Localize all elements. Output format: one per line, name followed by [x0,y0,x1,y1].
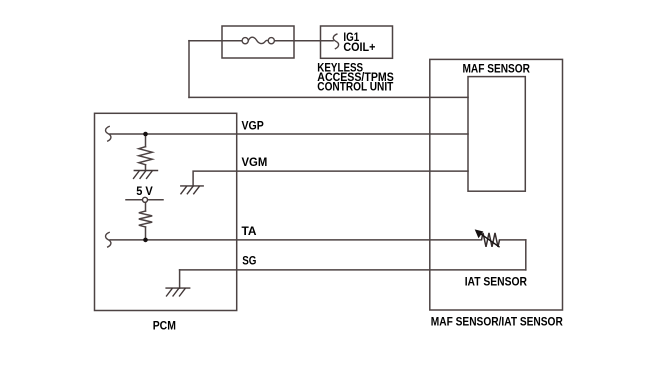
ground G1 under R1 [133,171,158,179]
wire keyless to MAF sensor [189,96,468,98]
resistor R1 lead top [145,134,147,147]
svg-text:VGP: VGP [242,119,264,133]
MAF sensor inner box [468,77,525,192]
wire VGP [110,133,468,135]
wire fuse left [189,40,242,42]
wire SG [180,269,526,271]
resistor R2 [139,211,152,227]
MAF SENSOR/IAT SENSOR box [430,59,563,310]
fuse box [222,26,294,58]
junction dot VGP [143,132,148,137]
wire SG ground riser [179,270,181,288]
resistor R2 lead top [145,202,147,211]
wire TA to corner after thermistor [500,239,526,241]
svg-text:MAF SENSOR/IAT SENSOR: MAF SENSOR/IAT SENSOR [431,314,563,328]
wire VGM [193,171,468,186]
resistor R1 lead bottom [145,165,147,171]
wire TA [110,239,482,241]
svg-text:IAT SENSOR: IAT SENSOR [465,275,528,289]
ground G3 SG [165,288,190,296]
svg-text:SG: SG [242,254,256,268]
wire vertical from fuse down [188,41,190,98]
svg-text:TA: TA [242,224,257,238]
svg-text:CONTROL UNIT: CONTROL UNIT [317,80,394,94]
svg-text:5 V: 5 V [136,184,153,198]
svg-text:MAF SENSOR: MAF SENSOR [463,62,531,76]
fuse symbol [242,37,274,44]
thermistor arrow head [475,229,484,238]
wire fuse right to IG1 [275,40,334,42]
PCM box [95,113,237,310]
connector squiggle VGP [106,126,111,141]
connector squiggle TA [106,232,111,247]
5V terminal circle [143,197,148,202]
thermistor IAT [482,233,500,247]
svg-text:VGM: VGM [242,155,268,169]
junction dot TA [143,238,148,243]
thermistor arrow shaft [481,234,500,247]
resistor R1 [139,147,152,165]
wire IAT right vertical [525,240,527,270]
resistor R2 lead bottom [145,227,147,240]
wire 5V rail [126,199,163,201]
svg-text:COIL+: COIL+ [343,40,375,54]
ground G2 VGM [180,186,204,194]
box KEYLESS ACCESS/TPMS CONTROL UNIT [321,26,393,58]
svg-text:PCM: PCM [153,318,176,332]
connector squiggle IG1 [333,34,338,49]
